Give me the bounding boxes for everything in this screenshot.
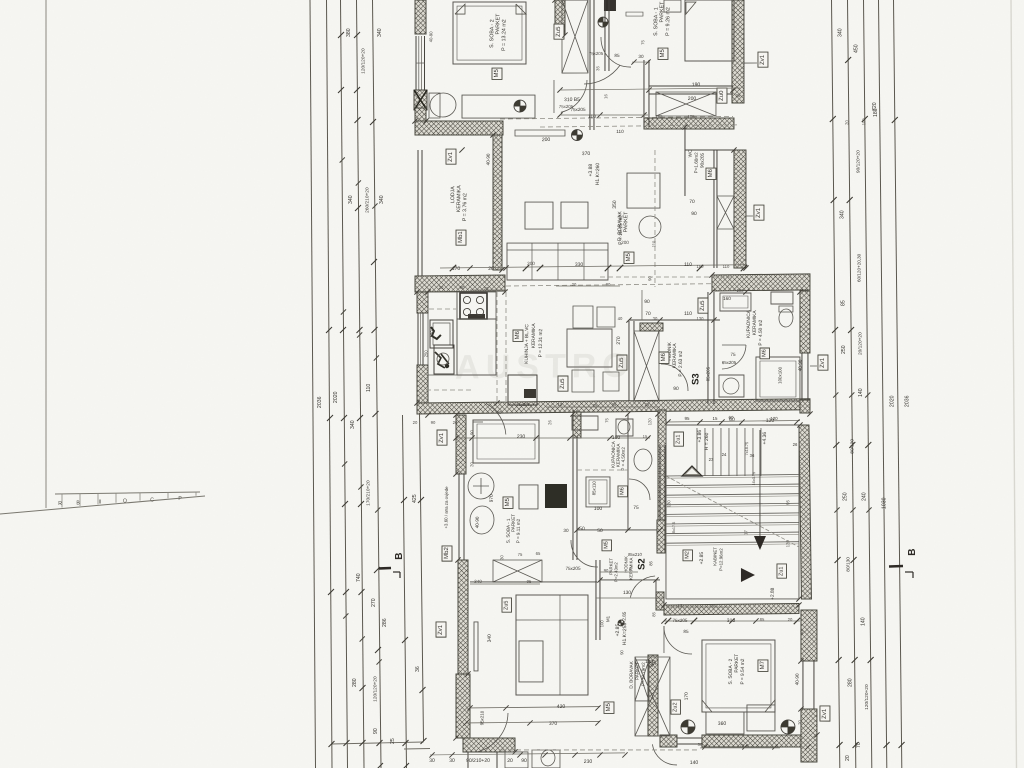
svg-text:286: 286 <box>382 618 388 627</box>
svg-text:140: 140 <box>858 388 864 397</box>
svg-text:425: 425 <box>412 494 418 503</box>
svg-text:190: 190 <box>692 82 701 88</box>
svg-text:M6: M6 <box>515 330 521 339</box>
svg-text:85: 85 <box>760 617 765 622</box>
svg-text:Zv1: Zv1 <box>438 624 444 635</box>
svg-text:B: B <box>907 549 918 556</box>
svg-text:120/120+20: 120/120+20 <box>864 684 870 710</box>
svg-text:40-90: 40-90 <box>428 31 433 42</box>
svg-text:36: 36 <box>750 453 755 458</box>
svg-text:120: 120 <box>647 418 652 426</box>
svg-text:200: 200 <box>542 137 551 143</box>
svg-text:M7: M7 <box>760 660 766 669</box>
svg-text:180: 180 <box>612 435 621 441</box>
svg-text:70: 70 <box>645 311 651 317</box>
svg-text:+4.36: +4.36 <box>762 432 768 445</box>
svg-text:50: 50 <box>579 526 585 532</box>
svg-text:130: 130 <box>696 316 704 321</box>
svg-text:M6: M6 <box>708 168 714 177</box>
svg-text:20: 20 <box>845 755 851 761</box>
svg-text:Zu5: Zu5 <box>700 300 706 311</box>
svg-text:330: 330 <box>575 262 584 268</box>
svg-text:230: 230 <box>584 759 593 765</box>
svg-text:36: 36 <box>415 666 421 672</box>
svg-text:S3: S3 <box>690 373 701 385</box>
svg-text:Zv1: Zv1 <box>448 151 454 162</box>
svg-text:M6: M6 <box>619 487 625 495</box>
svg-text:M6: M6 <box>761 349 767 357</box>
svg-text:165: 165 <box>655 114 663 119</box>
svg-text:Zv1: Zv1 <box>822 708 828 719</box>
svg-text:P = 9.26 m2: P = 9.26 m2 <box>665 7 671 36</box>
svg-text:360: 360 <box>718 721 727 727</box>
svg-text:120: 120 <box>785 540 790 548</box>
svg-text:200: 200 <box>621 240 629 245</box>
svg-text:H1.K=260: H1.K=260 <box>595 163 601 186</box>
svg-text:20: 20 <box>788 617 793 622</box>
svg-text:KERAMIKA: KERAMIKA <box>672 343 678 369</box>
svg-text:Zu5: Zu5 <box>556 26 562 37</box>
svg-text:95: 95 <box>612 402 617 407</box>
svg-text:2020: 2020 <box>333 391 339 403</box>
svg-text:170: 170 <box>684 692 690 700</box>
svg-text:18: 18 <box>558 402 563 407</box>
svg-text:90: 90 <box>431 420 436 425</box>
svg-text:90/120+20: 90/120+20 <box>855 150 861 173</box>
svg-text:75: 75 <box>640 40 645 45</box>
svg-text:85: 85 <box>648 560 653 565</box>
svg-text:40-90: 40-90 <box>475 516 480 528</box>
svg-text:75x205: 75x205 <box>559 104 574 109</box>
svg-text:340: 340 <box>379 195 385 204</box>
svg-text:280: 280 <box>352 678 358 687</box>
svg-text:26: 26 <box>736 93 741 98</box>
svg-text:970: 970 <box>489 494 495 502</box>
svg-text:Zu2: Zu2 <box>672 702 678 712</box>
svg-text:B: B <box>394 553 405 560</box>
svg-text:30: 30 <box>638 54 644 59</box>
svg-text:30: 30 <box>429 758 435 764</box>
svg-text:110: 110 <box>366 384 372 392</box>
svg-text:340: 340 <box>839 210 845 219</box>
svg-text:Zu0: Zu0 <box>719 90 725 101</box>
svg-text:65x205: 65x205 <box>722 360 737 365</box>
svg-text:P = 2.63 m2: P = 2.63 m2 <box>678 350 684 376</box>
svg-text:110: 110 <box>684 311 692 317</box>
svg-text:P = 3.76 m2: P = 3.76 m2 <box>462 193 468 221</box>
svg-text:30: 30 <box>563 528 569 533</box>
svg-text:KERAMIKA: KERAMIKA <box>531 323 537 349</box>
svg-text:2036: 2036 <box>317 396 323 408</box>
svg-text:M2: M2 <box>684 551 690 559</box>
svg-text:140: 140 <box>690 760 699 766</box>
svg-text:95: 95 <box>785 499 790 504</box>
svg-text:85x210: 85x210 <box>628 552 642 557</box>
svg-text:+2.88: +2.88 <box>770 587 776 600</box>
svg-text:170: 170 <box>452 266 461 272</box>
svg-text:O: O <box>123 498 127 504</box>
svg-text:16x0.75: 16x0.75 <box>752 472 756 486</box>
svg-text:M5: M5 <box>626 252 632 261</box>
svg-text:M5: M5 <box>505 497 511 506</box>
svg-text:240: 240 <box>861 492 867 501</box>
svg-text:250: 250 <box>423 350 428 358</box>
svg-text:60: 60 <box>729 415 735 420</box>
svg-text:340: 340 <box>837 28 843 37</box>
svg-text:740: 740 <box>356 573 362 582</box>
svg-text:KABINET: KABINET <box>712 547 717 566</box>
svg-text:2020: 2020 <box>889 395 895 407</box>
svg-text:270: 270 <box>616 336 622 345</box>
svg-text:20: 20 <box>439 285 444 290</box>
svg-text:40: 40 <box>618 316 623 321</box>
svg-text:340: 340 <box>487 634 493 642</box>
svg-text:380: 380 <box>346 28 352 37</box>
svg-text:P = 9.11 m2: P = 9.11 m2 <box>516 518 521 543</box>
svg-text:310 B5: 310 B5 <box>564 97 580 103</box>
svg-text:20: 20 <box>453 420 458 425</box>
svg-text:110: 110 <box>723 264 730 269</box>
svg-text:R: R <box>58 501 62 507</box>
svg-text:30: 30 <box>449 758 455 764</box>
svg-text:AUSTRO: AUSTRO <box>455 347 635 387</box>
svg-text:70: 70 <box>689 199 695 205</box>
svg-text:120/120+20: 120/120+20 <box>361 48 367 74</box>
svg-text:24: 24 <box>574 434 579 439</box>
svg-text:80/130: 80/130 <box>846 557 852 572</box>
svg-text:75: 75 <box>730 352 736 357</box>
svg-text:+2.85: +2.85 <box>622 611 627 623</box>
svg-text:90x205: 90x205 <box>700 152 705 168</box>
svg-text:95x210: 95x210 <box>479 710 484 725</box>
svg-text:130: 130 <box>666 500 671 508</box>
svg-text:Zv1: Zv1 <box>439 432 445 443</box>
svg-text:+2.85: +2.85 <box>699 552 705 565</box>
svg-text:150: 150 <box>696 264 704 269</box>
svg-text:20: 20 <box>797 719 802 724</box>
svg-text:100x100: 100x100 <box>777 366 782 383</box>
svg-text:90: 90 <box>673 386 679 392</box>
svg-text:23: 23 <box>709 457 714 462</box>
svg-text:300: 300 <box>527 261 535 266</box>
svg-text:Zv1: Zv1 <box>820 357 826 368</box>
svg-text:110: 110 <box>616 129 624 134</box>
svg-text:Zv1: Zv1 <box>760 54 766 65</box>
svg-text:25: 25 <box>390 738 396 744</box>
svg-text:180: 180 <box>873 108 879 117</box>
svg-text:120: 120 <box>429 330 434 338</box>
svg-text:40-90: 40-90 <box>486 153 491 165</box>
svg-text:M5: M5 <box>603 541 609 549</box>
svg-text:20: 20 <box>507 758 513 764</box>
svg-text:40-90: 40-90 <box>795 673 800 685</box>
svg-text:8x17.5: 8x17.5 <box>672 522 676 533</box>
svg-text:250: 250 <box>841 345 847 354</box>
svg-text:M6: M6 <box>661 352 667 361</box>
svg-text:90: 90 <box>373 728 379 734</box>
svg-text:80/120: 80/120 <box>849 439 855 454</box>
svg-text:75x205: 75x205 <box>565 566 581 571</box>
svg-text:75x205: 75x205 <box>672 618 688 623</box>
svg-text:M5: M5 <box>660 48 666 57</box>
svg-text:M5: M5 <box>494 68 500 77</box>
svg-text:M5: M5 <box>606 702 612 711</box>
svg-text:+3.88: +3.88 <box>588 164 594 177</box>
svg-text:H = 260: H = 260 <box>704 432 710 450</box>
svg-text:270: 270 <box>371 598 377 607</box>
svg-text:90/210+20: 90/210+20 <box>466 758 490 764</box>
svg-text:2036: 2036 <box>904 395 910 407</box>
svg-text:C: C <box>150 497 154 503</box>
svg-text:Zu1: Zu1 <box>778 566 784 576</box>
svg-text:85: 85 <box>614 53 620 58</box>
svg-text:250: 250 <box>842 492 848 501</box>
svg-text:280: 280 <box>847 678 853 687</box>
svg-text:85: 85 <box>651 611 656 616</box>
svg-text:+2.85: +2.85 <box>615 624 621 637</box>
svg-text:26: 26 <box>793 442 798 447</box>
svg-text:+3.86: +3.86 <box>697 430 703 443</box>
svg-text:7x18.75: 7x18.75 <box>745 442 749 456</box>
svg-text:100: 100 <box>736 288 744 293</box>
svg-text:30: 30 <box>698 742 703 747</box>
svg-text:75: 75 <box>518 552 523 557</box>
svg-text:M1: M1 <box>605 615 610 622</box>
svg-text:85x205: 85x205 <box>705 366 710 381</box>
svg-text:35: 35 <box>595 66 600 71</box>
svg-text:H1.K=258: H1.K=258 <box>622 623 628 646</box>
svg-text:90: 90 <box>460 285 465 290</box>
svg-text:S2: S2 <box>636 558 647 570</box>
svg-text:P = 4.50 m2: P = 4.50 m2 <box>758 319 764 345</box>
svg-text:24: 24 <box>722 452 727 457</box>
svg-text:340: 340 <box>377 28 383 37</box>
svg-text:KERAMIKA: KERAMIKA <box>752 310 758 336</box>
svg-text:16: 16 <box>603 94 608 99</box>
svg-text:230: 230 <box>517 434 526 440</box>
svg-text:90: 90 <box>469 429 474 434</box>
svg-text:420: 420 <box>557 704 566 710</box>
svg-text:350: 350 <box>612 200 618 209</box>
svg-text:20: 20 <box>469 461 474 466</box>
svg-text:P=12.96m2: P=12.96m2 <box>718 548 723 571</box>
svg-text:90: 90 <box>644 299 650 305</box>
svg-text:75x205: 75x205 <box>589 51 604 56</box>
svg-text:340: 340 <box>474 579 482 584</box>
svg-text:20/120+20: 20/120+20 <box>857 332 863 355</box>
svg-text:105: 105 <box>687 114 695 119</box>
svg-text:P = 9.54 m2: P = 9.54 m2 <box>740 658 746 684</box>
svg-text:WC: WC <box>688 149 693 157</box>
svg-text:170/210+20: 170/210+20 <box>366 480 372 506</box>
svg-text:Zu1: Zu1 <box>675 435 681 445</box>
svg-text:30: 30 <box>499 554 504 559</box>
svg-text:110: 110 <box>651 240 656 247</box>
svg-text:20: 20 <box>413 420 418 425</box>
svg-text:PARKET: PARKET <box>734 654 740 673</box>
svg-text:Mb1: Mb1 <box>458 231 464 243</box>
svg-text:85: 85 <box>840 300 846 306</box>
svg-text:Zv1: Zv1 <box>756 207 762 218</box>
svg-text:95: 95 <box>527 579 532 584</box>
svg-text:85x110: 85x110 <box>591 481 596 496</box>
svg-text:130: 130 <box>623 590 631 596</box>
svg-text:Zu5: Zu5 <box>503 600 509 610</box>
svg-text:40: 40 <box>799 629 804 634</box>
svg-text:120/120+20: 120/120+20 <box>373 676 379 702</box>
svg-text:260/210+20: 260/210+20 <box>365 187 371 213</box>
svg-text:25: 25 <box>645 402 650 407</box>
svg-text:65: 65 <box>536 551 541 556</box>
svg-text:PARKET: PARKET <box>623 211 629 233</box>
svg-text:KUPAONICA: KUPAONICA <box>746 309 752 338</box>
svg-text:75x205: 75x205 <box>516 402 530 407</box>
svg-text:110: 110 <box>684 262 692 268</box>
svg-text:D. BORAVAK: D. BORAVAK <box>629 660 634 688</box>
svg-text:200: 200 <box>688 96 697 102</box>
svg-text:II: II <box>99 499 102 505</box>
svg-text:P = 13.24 m2: P = 13.24 m2 <box>501 19 507 51</box>
svg-text:40-90: 40-90 <box>798 359 803 371</box>
svg-text:150: 150 <box>662 470 667 478</box>
svg-text:26: 26 <box>488 266 494 272</box>
svg-text:340: 340 <box>348 195 354 204</box>
svg-text:15: 15 <box>713 416 719 421</box>
svg-text:370: 370 <box>582 151 591 157</box>
svg-text:70: 70 <box>856 742 862 748</box>
svg-text:120: 120 <box>770 416 778 421</box>
svg-text:P=1.60m2: P=1.60m2 <box>694 152 699 174</box>
svg-text:Mb2: Mb2 <box>444 547 450 559</box>
svg-text:100: 100 <box>594 506 603 512</box>
svg-text:140: 140 <box>861 617 867 626</box>
svg-text:95: 95 <box>685 416 691 421</box>
svg-text:340: 340 <box>350 420 356 429</box>
svg-text:85: 85 <box>683 629 689 634</box>
svg-text:75: 75 <box>604 417 609 422</box>
svg-text:26: 26 <box>547 419 552 424</box>
svg-text:P = 4.50m2: P = 4.50m2 <box>621 447 626 471</box>
svg-text:370: 370 <box>549 721 558 727</box>
svg-text:+3.60 / ana za ovjede: +3.60 / ana za ovjede <box>443 486 449 529</box>
svg-text:P=12.79m2: P=12.79m2 <box>641 662 646 686</box>
svg-text:17: 17 <box>743 529 748 534</box>
svg-text:60/120+20,30: 60/120+20,30 <box>856 253 861 282</box>
svg-text:90: 90 <box>521 758 527 764</box>
svg-text:450: 450 <box>854 44 860 53</box>
svg-text:S. SOBA - 2: S. SOBA - 2 <box>728 658 734 684</box>
svg-text:1030: 1030 <box>881 497 887 509</box>
svg-text:PARKET: PARKET <box>635 662 640 680</box>
svg-text:100: 100 <box>599 620 604 628</box>
svg-text:160: 160 <box>723 296 731 301</box>
svg-text:90: 90 <box>497 410 502 415</box>
svg-text:30: 30 <box>653 316 658 321</box>
svg-text:90: 90 <box>691 211 697 217</box>
svg-text:90: 90 <box>619 649 624 654</box>
svg-text:50: 50 <box>597 528 603 534</box>
svg-text:50: 50 <box>649 662 654 668</box>
svg-text:90: 90 <box>647 276 652 281</box>
svg-text:75: 75 <box>633 505 639 511</box>
